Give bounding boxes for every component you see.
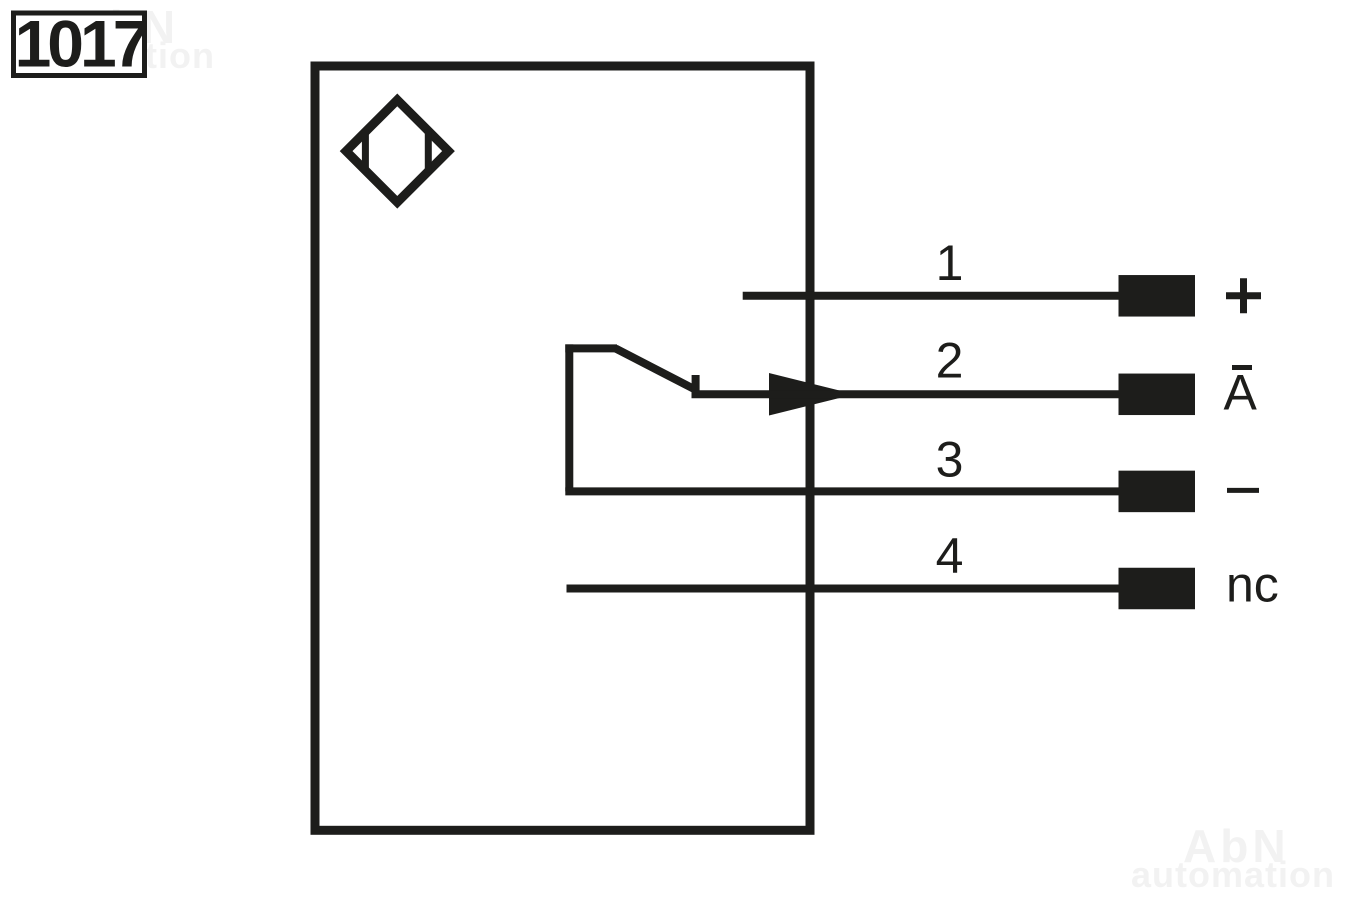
label + (pin 1) [1226, 278, 1261, 313]
watermark AbN automation bottom-right [1131, 820, 1335, 895]
output arrow [769, 373, 855, 416]
switch vertical link [565, 344, 573, 491]
label minus (pin 3) [1227, 488, 1259, 493]
label A-bar (pin 2) [1224, 365, 1258, 421]
svg-text:1: 1 [936, 235, 964, 291]
wire 2 [692, 390, 1120, 398]
svg-text:1017: 1017 [15, 7, 147, 81]
switch lever [616, 348, 696, 389]
wire 3 [565, 487, 1119, 495]
wire 1 [743, 292, 1119, 300]
pin 2 terminal [1119, 374, 1196, 416]
pin 1 terminal [1119, 275, 1196, 317]
svg-text:automation: automation [1131, 854, 1335, 895]
svg-text:A: A [1224, 365, 1258, 421]
designator box 1017 [14, 7, 147, 81]
svg-text:3: 3 [936, 432, 964, 488]
wire 4 [567, 585, 1120, 593]
watermark AbN automation top-left [11, 1, 215, 76]
magnetic sensor symbol: diamond [346, 100, 448, 202]
svg-text:4: 4 [936, 528, 964, 584]
svg-text:2: 2 [936, 333, 964, 389]
pin 4 terminal [1119, 568, 1196, 610]
contact tick [692, 375, 700, 394]
diamond left chord [362, 129, 369, 173]
diamond right chord [425, 129, 432, 173]
switch top bar [565, 344, 617, 352]
svg-text:nc: nc [1226, 557, 1279, 613]
sensor body outline [315, 66, 810, 830]
pin 3 terminal [1119, 471, 1196, 513]
